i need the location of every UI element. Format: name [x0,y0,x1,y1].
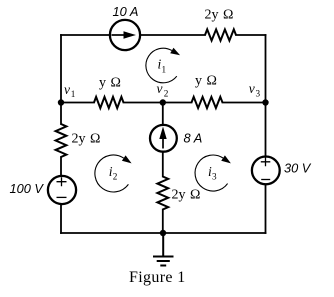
svg-text:100 V: 100 V [10,181,45,196]
node v1 dot [58,99,64,105]
current source 10A arrow [112,34,126,36]
svg-text:1: 1 [162,65,167,75]
wire right vertical [265,35,267,233]
svg-text:1: 1 [71,89,76,99]
svg-text:2y Ω: 2y Ω [72,132,101,147]
resistor top 2y [205,29,236,40]
svg-text:2y Ω: 2y Ω [205,8,234,23]
wire left vertical [60,35,62,233]
svg-text:2y Ω: 2y Ω [172,188,201,203]
wire middle horizontal [61,102,266,104]
mesh current i3 arc [195,155,228,191]
ground [153,233,174,266]
voltage source 30V plus [261,157,271,166]
svg-text:v: v [64,82,70,97]
resistor 2y left branch [56,124,67,157]
resistor y left [94,97,124,108]
current source 10A circle [110,20,140,50]
wire middle vertical [162,103,164,234]
mesh current i2 arc [95,155,128,192]
mesh current i1 arc [146,48,177,83]
svg-text:10 A: 10 A [113,4,139,19]
node v3 dot [262,99,268,105]
current source 8A circle [150,125,177,152]
svg-text:v: v [249,81,255,96]
voltage source 30V minus [261,179,270,181]
wire top [61,34,266,36]
current source 8A arrow [162,134,164,149]
svg-text:Figure 1: Figure 1 [129,269,186,286]
svg-text:3: 3 [256,89,261,99]
voltage source 100V circle [48,176,76,204]
svg-text:2: 2 [164,89,169,99]
svg-text:3: 3 [212,172,217,182]
voltage source 100V plus [57,177,67,186]
svg-text:30 V: 30 V [284,161,312,176]
svg-text:2: 2 [113,172,118,182]
node v2 dot [160,99,166,105]
wire bottom [61,232,266,234]
svg-text:y Ω: y Ω [99,76,121,91]
voltage source 30V circle [252,157,280,185]
node ground junction dot [160,230,166,236]
svg-text:8 A: 8 A [184,131,203,146]
svg-text:v: v [157,81,163,96]
svg-text:y Ω: y Ω [195,74,217,89]
resistor y right [192,97,223,108]
voltage source 100V minus [57,196,67,198]
resistor 2y middle branch [157,177,168,210]
